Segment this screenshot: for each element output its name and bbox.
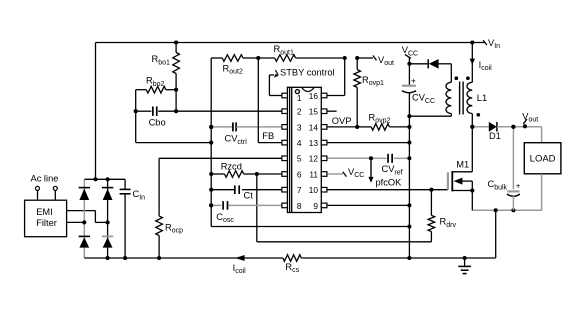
junction dot right leg bottom: [106, 256, 110, 260]
EMI filter box: [25, 200, 67, 237]
svg-text:VCC: VCC: [402, 45, 418, 57]
capacitor CVref: [371, 157, 387, 159]
phase dot aux winding: [454, 76, 458, 80]
diode bridge D-topright: [102, 187, 113, 189]
svg-text:Cbo: Cbo: [149, 118, 166, 128]
svg-text:L1: L1: [477, 93, 487, 103]
wire: pin 11 stub (gray) to VCC tick: [327, 173, 343, 175]
transformer primary winding L1: [467, 82, 472, 113]
pin 15 pad: [321, 109, 327, 114]
resistor Rzcd (horizontal): [211, 173, 224, 175]
wire: primary bottom lead to drain/D1 node: [471, 114, 473, 127]
junction dot left leg mid: [82, 220, 86, 224]
diode bridge D-bottomleft: [79, 235, 90, 237]
wire: EMI output top (to right bridge leg): [67, 210, 96, 212]
junction dot drain/D1 node (top coat): [470, 125, 474, 129]
wire: bus bottom jog to right bus: [211, 226, 409, 228]
junction dot rail / jog wire: [407, 224, 411, 228]
pin 10 pad: [321, 187, 327, 192]
svg-text:Rout1: Rout1: [274, 44, 294, 56]
wire: Rout1 node to Vout terminal: [357, 57, 373, 59]
junction dot: Rovp1 top: [355, 56, 359, 60]
diode bridge D-bottomright (gray bar): [102, 235, 113, 237]
junction dot drain/D1 node: [470, 125, 474, 129]
svg-text:Rdrv: Rdrv: [440, 217, 457, 229]
resistor Rout2 (horizontal): [211, 57, 222, 59]
transistor M1 channel bar: [451, 171, 453, 191]
IC inner double line: [289, 87, 291, 212]
transistor M1 gate bar (gray): [447, 172, 449, 189]
wire: down into LOAD (gray): [541, 127, 543, 143]
wire: right vertical bus: [408, 64, 410, 86]
phase dot primary winding top: [466, 76, 470, 80]
svg-text:Ct: Ct: [244, 191, 254, 201]
junction dot: pin14/Rovp1/Rovp2 node: [355, 125, 359, 129]
wire: D1 cathode to load (gray): [497, 126, 542, 128]
wire: Ac terminals into EMI filter: [37, 190, 39, 200]
capacitor Cosc row (gray) : bus to pin 8: [211, 204, 221, 206]
svg-text:CVCC: CVCC: [412, 93, 435, 105]
svg-text:+: +: [411, 76, 416, 86]
wire: Rdrv bottom return to Rzcd node: [257, 241, 432, 243]
terminal tick Vout (right): [523, 119, 527, 124]
pin 3 pad: [282, 125, 288, 130]
wire: Rocp top to pin 5: [159, 157, 282, 159]
junction dot Cbulk top (top coat): [511, 125, 515, 129]
IC pin-1 indicator circle: [295, 90, 299, 94]
terminal circle Ac line right: [53, 186, 57, 190]
junction dot Rzcd right / Rdrv return: [255, 172, 259, 176]
junction dot rail / right bus: [407, 256, 411, 260]
svg-text:pfcOK: pfcOK: [376, 178, 403, 188]
transformer core lines: [459, 82, 461, 115]
phase dot primary winding bottom: [476, 113, 480, 117]
svg-text:Rcs: Rcs: [285, 262, 299, 274]
svg-text:Rovp1: Rovp1: [362, 75, 384, 87]
junction dot bus/Ct: [209, 188, 213, 192]
capacitor Cbulk (polarized, gray leads): [512, 127, 514, 189]
wire: rail up to source node: [495, 210, 497, 258]
svg-text:OVP: OVP: [332, 116, 352, 126]
STBY regulation arrow: [275, 70, 278, 75]
svg-text:11: 11: [309, 169, 318, 179]
diode bridge D-topleft: [79, 187, 90, 189]
svg-text:Vout: Vout: [378, 55, 394, 67]
junction dot: Rbo1 bottom / Rbo2 right: [174, 88, 178, 92]
VCC terminal: [408, 57, 410, 64]
transistor M1 body arrow: [462, 180, 472, 182]
pin 9 pad: [321, 203, 327, 208]
pfcOK down arrow: [370, 158, 372, 178]
pin 4 pad: [282, 140, 288, 145]
diode DVcc (aux to VCC): [409, 63, 427, 65]
terminal tick VCC (pin 11): [343, 172, 347, 177]
wire: pin 13 to right bus: [327, 142, 410, 144]
junction dot M1 source: [470, 188, 474, 192]
svg-text:16: 16: [309, 91, 319, 101]
resistor Rovp2 (horizontal): [357, 126, 371, 128]
junction dot bus/Cosc (top coat): [209, 203, 213, 207]
wire: top horizontal rail from left corner to Vin terminal: [96, 42, 485, 44]
wire: pin 12 (pfcOK) gray wire: [327, 157, 371, 159]
wire: Cbo-left branch down to bus row: [135, 111, 137, 142]
junction dot bus/pin4-branch: [209, 141, 213, 145]
capacitor CVcc (polarized): [402, 85, 416, 87]
junction dot: pin16 branch: [343, 56, 347, 60]
svg-text:VIn: VIn: [488, 38, 500, 50]
wire: pin 10 drive wire to gate: [327, 189, 448, 191]
wire: pin 14 to Rovp2: [327, 126, 357, 128]
svg-text:VCC: VCC: [348, 167, 364, 179]
IC body U1 (16-pin controller): [287, 87, 321, 212]
svg-text:12: 12: [309, 154, 319, 164]
svg-text:1: 1: [297, 93, 302, 103]
terminal tick Vin: [483, 40, 487, 45]
wire: bridge right leg: [107, 179, 109, 258]
svg-text:Rocp: Rocp: [165, 222, 183, 234]
resistor Rcs (in bottom rail): [283, 255, 301, 262]
resistor Rdrv (vertical): [430, 190, 432, 216]
junction dot source/rail node: [494, 208, 498, 212]
wire: Rbo1/Rbo2 junction down to Cbo row: [175, 90, 177, 112]
ground symbol: [464, 258, 466, 266]
junction dot Rdrv top: [429, 188, 433, 192]
terminal circle Ac line left: [36, 186, 40, 190]
svg-text:Rout2: Rout2: [223, 63, 243, 75]
junction dot: Rovp2 right on right bus: [407, 125, 411, 129]
diode D1: [489, 122, 497, 132]
svg-text:10: 10: [309, 185, 319, 195]
junction dot bus/Rzcd: [209, 172, 213, 176]
junction dot bus/CVctrl: [209, 125, 213, 129]
resistor Rovp1 (vertical): [356, 58, 358, 70]
resistor Rout1 (horizontal): [258, 57, 274, 59]
svg-text:Rbo1: Rbo1: [152, 54, 171, 66]
svg-text:EMI: EMI: [36, 207, 53, 217]
svg-text:6: 6: [297, 169, 302, 179]
wire: pin 15 stub: [327, 110, 337, 112]
svg-text:FB: FB: [262, 131, 274, 141]
resistor Rocp (vertical): [158, 158, 160, 216]
junction dot Cbulk top: [511, 125, 515, 129]
transformer aux winding: [446, 82, 451, 113]
junction dot Cin bottom: [123, 256, 127, 260]
LOAD box: [524, 143, 561, 174]
pin 14 pad: [321, 125, 327, 130]
wire: left outer vertical from top rail down to bridge top rail: [95, 43, 97, 180]
wire: Rzcd node to pin 6: [257, 173, 282, 175]
junction dot pin13/right-bus: [407, 141, 411, 145]
svg-text:Rzcd: Rzcd: [221, 161, 242, 171]
svg-text:4: 4: [297, 138, 302, 148]
svg-text:CIn: CIn: [133, 189, 146, 201]
svg-text:2: 2: [297, 107, 302, 117]
svg-text:M1: M1: [456, 160, 469, 170]
pin 7 pad: [282, 187, 288, 192]
wire: D1 anode wire (gray): [472, 126, 489, 128]
junction dot Rocp bottom: [157, 256, 161, 260]
wire: EMI output bottom (to left bridge leg): [67, 221, 85, 223]
svg-text:Filter: Filter: [36, 218, 57, 228]
transistor M1 source: [452, 190, 472, 192]
svg-text:8: 8: [297, 201, 302, 211]
wire: pin 16 to Vout divider node: [327, 95, 345, 97]
junction dot VCC node: [407, 62, 411, 66]
svg-text:+: +: [516, 182, 521, 191]
pin 11 pad: [321, 172, 327, 177]
junction dot: Cbo left: [134, 109, 138, 113]
pin 2 pad: [282, 109, 288, 114]
junction dot pin9/right-bus: [407, 203, 411, 207]
wire: pin 1 to STBY arrow: [269, 95, 282, 97]
current arrow Icoil (bottom): [235, 255, 245, 261]
junction dot pfcOK node: [369, 156, 373, 160]
transistor M1 drain lead: [471, 127, 473, 172]
svg-text:Ac line: Ac line: [31, 174, 59, 184]
wire: Rbo2 left lead down to Cbo row: [135, 90, 137, 112]
wire: aux winding top lead: [450, 64, 452, 83]
pin 13 pad: [321, 140, 327, 145]
svg-text:3: 3: [297, 122, 302, 132]
svg-text:Icoil: Icoil: [479, 60, 493, 72]
junction dot: Cbo right / pin2 wire: [174, 109, 178, 113]
junction dot: top rail / boost inductor branch: [470, 40, 474, 44]
svg-text:14: 14: [309, 122, 319, 132]
junction dot: top rail / Rbo1: [174, 40, 178, 44]
pin 1 pad: [282, 93, 288, 98]
wire: aux winding bottom lead to right bus: [450, 114, 452, 117]
pin 8 pad: [282, 203, 288, 208]
wire: pin 9 to right bus: [327, 204, 410, 206]
junction dot top rail / right leg: [106, 177, 110, 181]
pin 6 pad: [282, 172, 288, 177]
pin 16 pad: [321, 93, 327, 98]
resistor Rbo1 (vertical): [175, 43, 177, 53]
capacitor Cin: [124, 179, 126, 189]
junction dot right leg mid: [106, 220, 110, 224]
output terminal dot: [523, 124, 527, 128]
svg-text:LOAD: LOAD: [530, 154, 556, 165]
wire: horizontal to left bus at pin4 level: [136, 142, 212, 144]
svg-text:CVref: CVref: [382, 164, 403, 176]
svg-text:7: 7: [297, 185, 302, 195]
wire: LOAD bottom return (gray): [541, 174, 543, 211]
svg-text:STBY control: STBY control: [280, 68, 335, 78]
svg-text:Cosc: Cosc: [216, 212, 234, 224]
wire: left signal bus vertical (Rout2 left end down to bottom jog): [210, 58, 212, 227]
svg-text:Icoil: Icoil: [233, 263, 247, 275]
junction dot bus/Cosc: [209, 203, 213, 207]
terminal tick Vout (top): [373, 55, 377, 60]
wire: FB node down to pin 4: [257, 58, 259, 143]
capacitor Cbo: [136, 110, 152, 112]
wire: bridge top rail: [84, 178, 125, 180]
svg-text:13: 13: [309, 138, 319, 148]
svg-text:15: 15: [309, 107, 319, 117]
wire: boost inductor top lead with Icoll arrow: [471, 43, 473, 83]
junction dot CVref right on right bus: [407, 156, 411, 160]
junction dot: Rout2/Rout1/FB node: [256, 56, 260, 60]
svg-text:Rbo2: Rbo2: [146, 76, 165, 88]
junction dot top rail / left outer vertical: [93, 177, 97, 181]
wire: bottom ground rail: [84, 257, 283, 259]
junction dot Cbulk bottom: [511, 208, 515, 212]
resistor Rbo2 (horizontal): [136, 89, 147, 91]
junction dot bus/CVctrl (top coat): [209, 125, 213, 129]
wire: bridge left leg (gray): [83, 179, 85, 258]
junction dot aux-return on right bus: [407, 114, 411, 118]
IC top notch: [301, 87, 314, 91]
svg-text:D1: D1: [489, 131, 501, 141]
svg-text:Cbulk: Cbulk: [488, 179, 508, 191]
svg-text:CVctrl: CVctrl: [225, 134, 248, 146]
capacitor CVctrl row (gray): bus to pin 3: [211, 126, 233, 128]
capacitor Ct row: bus to pin 7: [211, 189, 235, 191]
junction dot rail / ground: [463, 256, 467, 260]
svg-text:9: 9: [313, 201, 318, 211]
pin 5 pad: [282, 156, 288, 161]
svg-text:5: 5: [297, 154, 302, 164]
svg-text:Rovp2: Rovp2: [369, 113, 391, 125]
pin 12 pad: [321, 156, 327, 161]
